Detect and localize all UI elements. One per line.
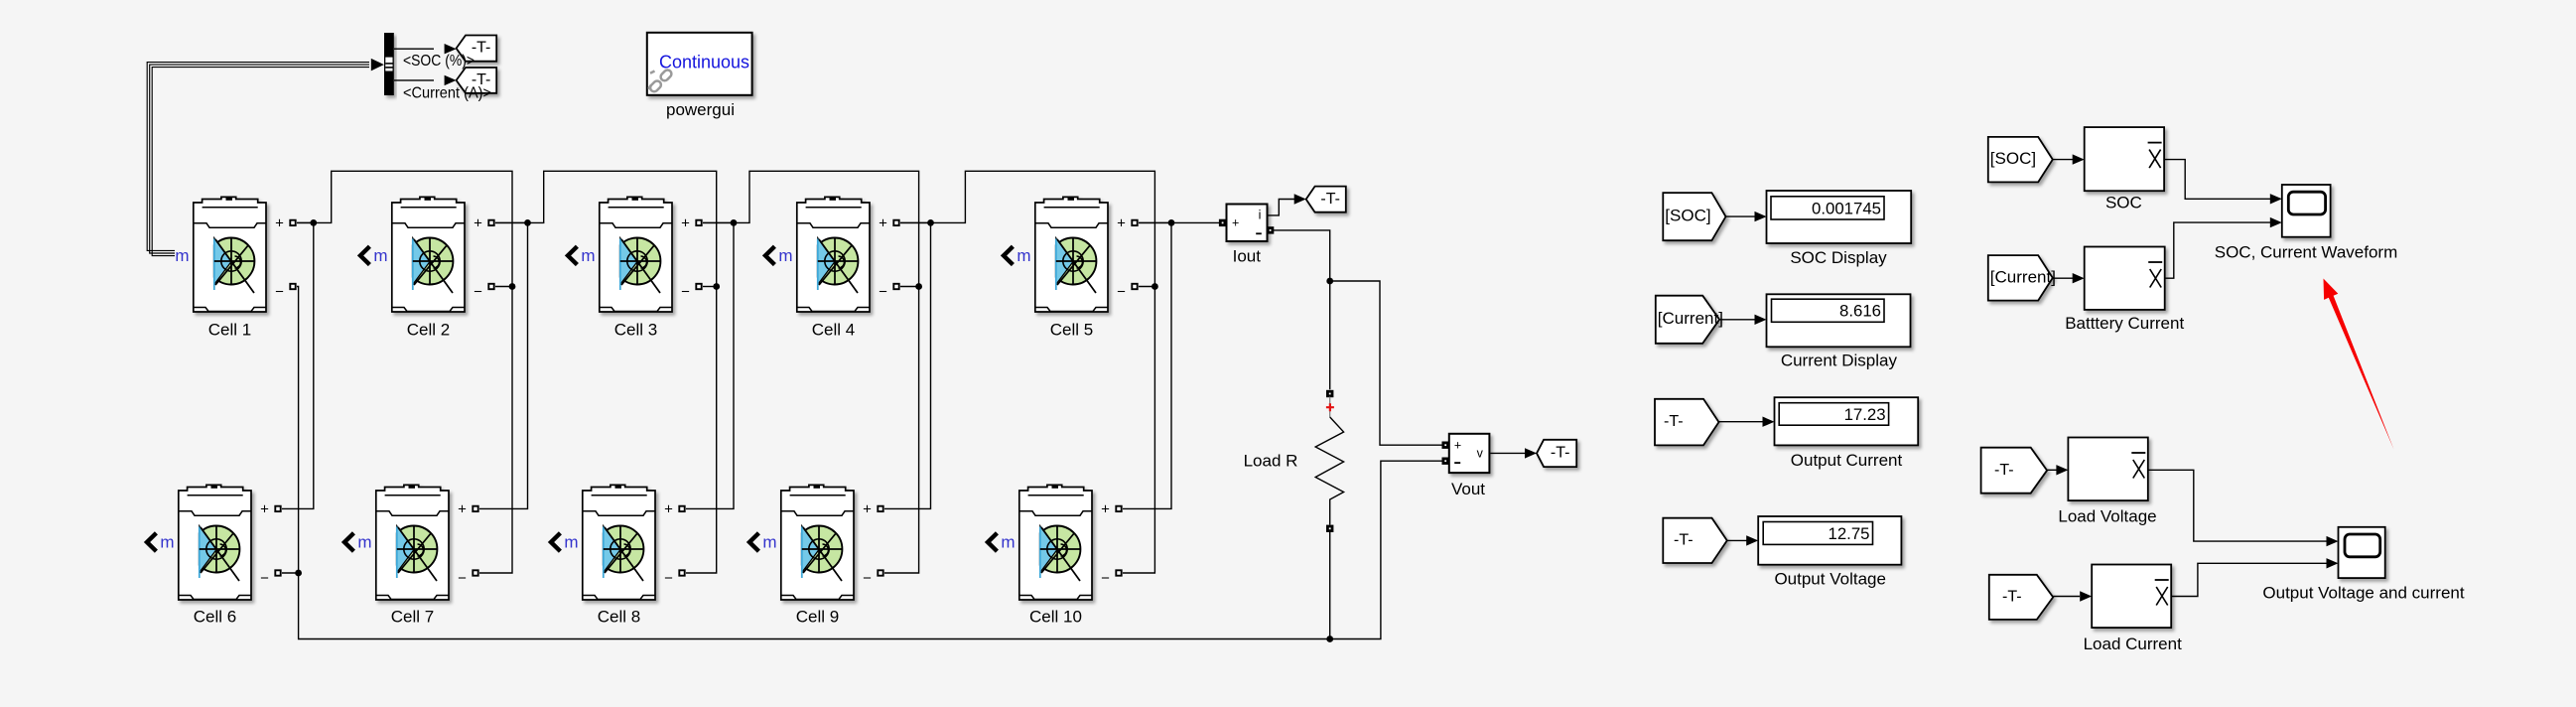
svg-text:Cell 8: Cell 8 xyxy=(598,607,640,626)
svg-text:Output Current: Output Current xyxy=(1791,451,1903,470)
svg-text:m: m xyxy=(175,246,189,265)
svg-text:Cell 9: Cell 9 xyxy=(796,607,839,626)
svg-text:Output Voltage and current: Output Voltage and current xyxy=(2262,584,2464,603)
svg-text:SOC: SOC xyxy=(2105,194,2142,212)
svg-text:SOC Display: SOC Display xyxy=(1790,248,1887,267)
svg-text:[Current]: [Current] xyxy=(1658,309,1723,328)
svg-text:Load R: Load R xyxy=(1244,452,1298,471)
svg-text:+: + xyxy=(260,500,269,517)
svg-text:+: + xyxy=(863,500,872,517)
svg-text:+: + xyxy=(879,214,887,231)
svg-text:+: + xyxy=(1101,500,1110,517)
svg-text:m: m xyxy=(373,246,387,265)
svg-text:+: + xyxy=(681,214,690,231)
svg-text:[SOC]: [SOC] xyxy=(1665,207,1710,225)
svg-text:m: m xyxy=(564,533,578,552)
svg-text:Cell 3: Cell 3 xyxy=(614,320,657,339)
svg-text:+: + xyxy=(474,214,482,231)
svg-text:<Current (A)>: <Current (A)> xyxy=(403,85,491,102)
svg-text:−: − xyxy=(474,284,482,301)
svg-text:Vout: Vout xyxy=(1451,480,1485,498)
svg-text:+: + xyxy=(458,500,467,517)
svg-text:-T-: -T- xyxy=(1320,191,1340,208)
svg-text:Load Current: Load Current xyxy=(2084,635,2183,653)
svg-text:v: v xyxy=(1477,447,1484,461)
svg-text:Cell 4: Cell 4 xyxy=(812,320,855,339)
svg-text:<SOC (%)>: <SOC (%)> xyxy=(403,53,475,70)
svg-text:Cell 2: Cell 2 xyxy=(407,320,450,339)
svg-text:Current Display: Current Display xyxy=(1781,352,1898,370)
svg-text:−: − xyxy=(260,570,269,587)
svg-text:−: − xyxy=(863,570,872,587)
svg-text:SOC, Current Waveform: SOC, Current Waveform xyxy=(2215,243,2398,262)
svg-text:Load Voltage: Load Voltage xyxy=(2058,507,2156,526)
svg-text:m: m xyxy=(1001,533,1015,552)
svg-text:−: − xyxy=(1101,570,1110,587)
svg-text:Cell 1: Cell 1 xyxy=(208,320,251,339)
svg-text:0.001745: 0.001745 xyxy=(1812,199,1881,217)
svg-text:-T-: -T- xyxy=(2002,588,2022,605)
svg-text:+: + xyxy=(1454,439,1461,453)
svg-text:+: + xyxy=(1117,214,1126,231)
svg-text:+: + xyxy=(664,500,673,517)
svg-text:−: − xyxy=(664,570,673,587)
svg-text:i: i xyxy=(1259,209,1262,222)
svg-text:17.23: 17.23 xyxy=(1844,405,1886,424)
svg-text:−: − xyxy=(275,284,284,301)
svg-text:m: m xyxy=(160,533,174,552)
svg-text:-T-: -T- xyxy=(1994,462,2014,479)
svg-text:Iout: Iout xyxy=(1233,246,1262,265)
svg-text:8.616: 8.616 xyxy=(1839,302,1881,321)
svg-text:Output Voltage: Output Voltage xyxy=(1774,569,1885,588)
svg-text:-T-: -T- xyxy=(1664,413,1684,430)
svg-text:−: − xyxy=(879,284,887,301)
svg-text:m: m xyxy=(1017,246,1030,265)
svg-text:powergui: powergui xyxy=(666,100,735,119)
svg-text:Continuous: Continuous xyxy=(659,53,749,72)
svg-text:Cell 10: Cell 10 xyxy=(1029,607,1082,626)
svg-text:+: + xyxy=(1232,215,1239,229)
svg-text:m: m xyxy=(778,246,792,265)
svg-text:[Current]: [Current] xyxy=(1990,267,2056,286)
svg-text:m: m xyxy=(762,533,776,552)
svg-text:−: − xyxy=(1117,284,1126,301)
svg-text:m: m xyxy=(357,533,371,552)
svg-text:-T-: -T- xyxy=(1551,445,1570,462)
svg-text:Batttery Current: Batttery Current xyxy=(2065,314,2184,333)
svg-text:Cell 6: Cell 6 xyxy=(194,607,236,626)
svg-text:[SOC]: [SOC] xyxy=(1990,149,2036,168)
svg-text:12.75: 12.75 xyxy=(1829,524,1870,543)
svg-text:-T-: -T- xyxy=(1674,531,1694,548)
svg-text:+: + xyxy=(275,214,284,231)
svg-text:−: − xyxy=(458,570,467,587)
svg-text:Cell 7: Cell 7 xyxy=(391,607,434,626)
svg-text:−: − xyxy=(681,284,690,301)
svg-text:m: m xyxy=(581,246,595,265)
svg-text:Cell 5: Cell 5 xyxy=(1050,320,1093,339)
